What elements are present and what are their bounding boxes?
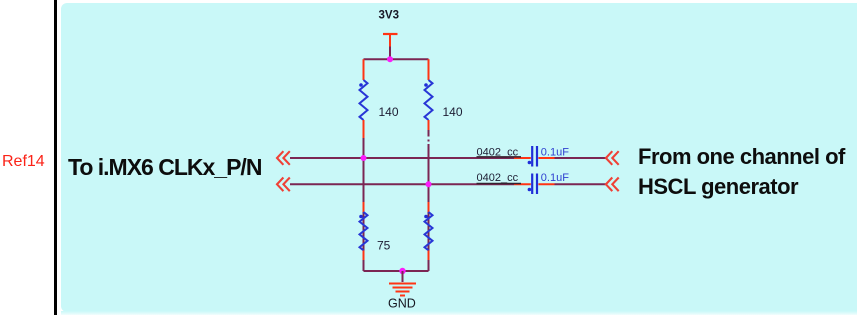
pin capacitor C2 right bbox=[538, 183, 554, 185]
port chevron line2 right bbox=[606, 178, 619, 192]
pin resistor R2 bottom bbox=[428, 120, 430, 130]
svg-text:3V3: 3V3 bbox=[379, 10, 399, 22]
node label To i.MX6 CLKx_P/N bbox=[68, 156, 261, 179]
wire top rail bbox=[364, 58, 429, 60]
wire power stem to top rail bbox=[389, 47, 391, 60]
capacitor C2 label underline bbox=[477, 183, 522, 185]
resistor R2 pin-1 dot bbox=[424, 83, 428, 87]
capacitor C1 pin-1 dot bbox=[528, 161, 532, 165]
panel bottom soft edge bbox=[61, 311, 857, 315]
wire bottom rail bbox=[364, 260, 429, 271]
pin capacitor C2 left bbox=[514, 183, 531, 185]
resistor R4 pin-1 dot bbox=[424, 215, 428, 219]
capacitor C2 plates bbox=[532, 174, 537, 195]
svg-text:0.1uF: 0.1uF bbox=[541, 172, 569, 184]
junction line1 / left branch bbox=[361, 155, 367, 161]
pin resistor R4 bottom bbox=[428, 251, 430, 262]
svg-text:0402_cc: 0402_cc bbox=[477, 172, 519, 184]
pin resistor R4 top bbox=[428, 202, 430, 212]
port chevron line1 left bbox=[277, 151, 290, 165]
junction top rail / power bbox=[387, 56, 393, 62]
wire left branch vertical bbox=[363, 138, 365, 271]
pin capacitor C1 left bbox=[514, 157, 531, 159]
wire signal line 2 right bbox=[555, 183, 607, 185]
power symbol 3V3 bar bbox=[383, 33, 398, 35]
pin resistor R3 top bbox=[363, 202, 365, 212]
resistor R2 body bbox=[425, 80, 433, 120]
capacitor C1 plates bbox=[532, 146, 537, 167]
pin capacitor C1 right bbox=[538, 157, 554, 159]
power symbol 3V3 stem bbox=[389, 34, 391, 47]
pin resistor R1 top bbox=[363, 59, 365, 80]
capacitor C1 label underline bbox=[477, 156, 522, 158]
port chevron line1 right bbox=[606, 151, 619, 165]
port chevron line2 left bbox=[277, 178, 290, 192]
resistor R1 pin-1 dot bbox=[359, 83, 363, 87]
svg-text:140: 140 bbox=[443, 105, 463, 119]
wire right branch upper segment with gap bbox=[428, 130, 430, 271]
resistor R3 body bbox=[360, 212, 368, 250]
node label From one channel of HSCL generator bbox=[638, 142, 845, 201]
left frame border line bbox=[54, 0, 57, 315]
ground symbol bars bbox=[389, 284, 416, 296]
svg-text:75: 75 bbox=[377, 239, 391, 253]
resistor R4 body bbox=[425, 212, 433, 250]
junction bottom rail / ground bbox=[399, 268, 405, 274]
svg-text:0.1uF: 0.1uF bbox=[541, 147, 569, 159]
wire signal line 2 bbox=[290, 183, 514, 185]
ground stem bbox=[402, 271, 404, 282]
wire signal line 1 bbox=[290, 157, 514, 159]
resistor R1 body bbox=[360, 80, 368, 120]
capacitor C2 pin-1 dot bbox=[528, 188, 532, 192]
pin resistor R3 bottom bbox=[363, 251, 365, 262]
svg-text:GND: GND bbox=[388, 296, 416, 310]
svg-text:140: 140 bbox=[379, 105, 399, 119]
pin resistor R2 top bbox=[428, 59, 430, 80]
resistor R3 pin-1 dot bbox=[359, 215, 363, 219]
junction line2 / right branch bbox=[426, 181, 432, 187]
wire signal line 1 right bbox=[555, 157, 607, 159]
pin resistor R1 bottom bbox=[363, 120, 365, 138]
node Ref14 label bbox=[2, 154, 45, 170]
